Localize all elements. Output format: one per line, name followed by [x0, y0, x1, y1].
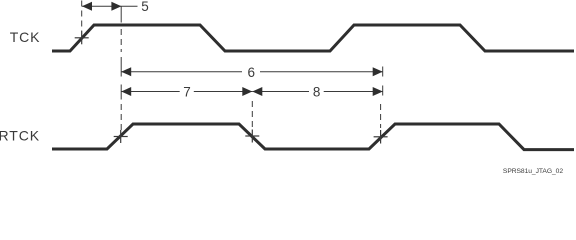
dashed line at TCK rising edge midpoint: [81, 1, 83, 32]
extension line at x=121 for dimension 7: [120, 85, 122, 100]
extension tick at x=382.7 for dimension 6: [382, 67, 384, 77]
svg-text:5: 5: [141, 0, 149, 14]
dimension 8 arrow: [252, 87, 382, 96]
svg-text:7: 7: [183, 84, 191, 99]
TCK waveform: [52, 25, 574, 51]
svg-text:RTCK: RTCK: [0, 128, 40, 144]
dimension 5 arrow: [82, 2, 138, 11]
extension line at x=121 (upper, to TCK high): [120, 6, 122, 22]
cross mark RTCK first rising edge: [114, 130, 128, 143]
svg-text:6: 6: [248, 65, 256, 80]
dashed line at x=121 between TCK and dimension lines: [120, 29, 122, 52]
extension tick at x=382.7 for dimension 8: [382, 86, 384, 96]
dashed line at x=252 down to RTCK falling edge: [251, 101, 253, 129]
dashed line at x=121 down to RTCK rising edge: [120, 104, 122, 130]
RTCK waveform: [52, 124, 574, 150]
cross mark TCK rising edge: [75, 31, 89, 44]
extension line at x=121 for dimension 6: [120, 57, 122, 77]
svg-text:SPRS81u_JTAG_02: SPRS81u_JTAG_02: [503, 168, 563, 175]
dimension 6 arrow: [121, 67, 383, 76]
dashed line at x=380.6 down to RTCK second rising edge: [380, 104, 382, 128]
svg-text:TCK: TCK: [10, 29, 41, 45]
svg-text:8: 8: [313, 84, 321, 99]
dimension 7 arrow: [121, 87, 252, 96]
cross mark RTCK second rising edge: [374, 130, 388, 144]
cross mark RTCK falling edge: [245, 130, 259, 143]
